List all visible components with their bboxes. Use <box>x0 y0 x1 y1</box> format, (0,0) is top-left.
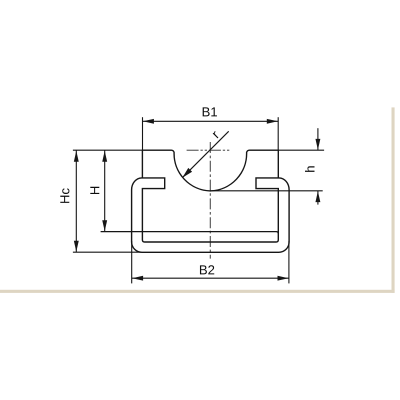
extension line: groove bottom to h dim <box>210 190 322 192</box>
label h <box>305 166 314 172</box>
dimension Hc: bottom arrowhead <box>74 241 79 252</box>
radius leader line <box>183 131 229 177</box>
wire: centerline vertical (dash-dot) <box>209 142 211 259</box>
profile: block bottom / H extension line <box>101 232 279 234</box>
radius leader arrowhead <box>182 168 192 178</box>
label B2 <box>200 265 214 274</box>
dimension H: top arrowhead <box>102 151 107 162</box>
dimension B2: right extension line <box>288 241 290 283</box>
dimension h: upper arrowhead <box>315 139 320 150</box>
dimension Hc: top arrowhead <box>74 151 79 162</box>
profile: top block with groove <box>142 150 278 191</box>
dimension h: lower dimension line <box>317 191 319 205</box>
extension line: top surface left (to Hc/H dims) <box>73 149 142 151</box>
dimension Hc: dimension line <box>75 150 77 252</box>
extension line: outer bottom left (to Hc dim) <box>73 251 142 253</box>
dimension h: lower arrowhead <box>315 191 320 202</box>
dimension B2: right arrowhead <box>278 276 289 281</box>
dimension B1: right extension line <box>277 117 279 150</box>
dimension B1: right arrowhead <box>267 119 278 124</box>
profile: outer channel with lips <box>132 178 290 252</box>
dimension B1: dimension line <box>143 120 279 122</box>
label Hc <box>60 188 69 203</box>
label r <box>213 131 220 138</box>
table cell border vertical (beige) <box>392 107 395 292</box>
dimension B1: left arrowhead <box>143 119 154 124</box>
extension line: top surface right (to h dim) <box>278 149 324 151</box>
dimension B2: left extension line <box>131 241 133 283</box>
wire: centerline horizontal (dash-dot) <box>187 149 230 151</box>
dimension B2: dimension line <box>132 277 289 279</box>
dimension h: upper dimension line <box>317 128 319 150</box>
dimension H: dimension line <box>104 150 106 231</box>
label H <box>90 187 99 194</box>
dimension H: bottom arrowhead <box>102 220 107 231</box>
dimension B1: left extension line <box>142 117 144 150</box>
dimension B2: left arrowhead <box>132 276 143 281</box>
table cell border horizontal (beige) <box>0 290 395 293</box>
label B1 <box>203 107 217 116</box>
